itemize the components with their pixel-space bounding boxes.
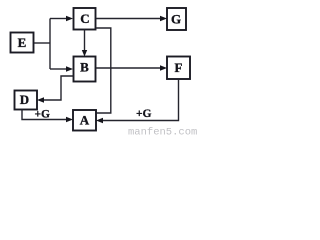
- wire F feedback to A: [103, 79, 179, 121]
- wire B to F: [96, 67, 160, 69]
- svg-text:A: A: [80, 113, 90, 128]
- wire C to G: [96, 18, 160, 20]
- box C: [74, 8, 96, 30]
- arrow into B top: [82, 50, 87, 57]
- svg-text:manfen5.com: manfen5.com: [128, 127, 197, 138]
- arrow into C: [66, 16, 73, 21]
- arrow into A right: [96, 118, 103, 123]
- box F: [167, 57, 190, 80]
- svg-text:+G: +G: [136, 108, 152, 120]
- wire C down-loop to A: [96, 28, 111, 113]
- arrow into F: [160, 65, 167, 70]
- svg-text:B: B: [80, 60, 89, 75]
- svg-text:F: F: [175, 60, 183, 75]
- box B: [74, 57, 96, 82]
- arrow into B left: [66, 66, 73, 71]
- arrow into D: [37, 97, 44, 102]
- box D: [15, 91, 38, 110]
- arrow into A left: [66, 117, 73, 122]
- box G: [167, 8, 186, 30]
- box E: [11, 33, 34, 53]
- wire B to D path: [44, 76, 74, 100]
- wire E output to junction: [34, 42, 50, 44]
- box A: [73, 110, 96, 131]
- svg-text:D: D: [20, 92, 29, 107]
- svg-text:C: C: [80, 11, 89, 26]
- wire D down to A: [22, 110, 66, 120]
- wire branch to C: [50, 18, 66, 20]
- wire junction vertical: [49, 19, 51, 70]
- arrow into G: [160, 16, 167, 21]
- svg-text:E: E: [18, 35, 27, 50]
- svg-text:+G: +G: [35, 109, 51, 121]
- svg-text:G: G: [171, 12, 181, 27]
- wire branch to B: [50, 68, 66, 70]
- wire C to B vertical: [84, 30, 86, 51]
